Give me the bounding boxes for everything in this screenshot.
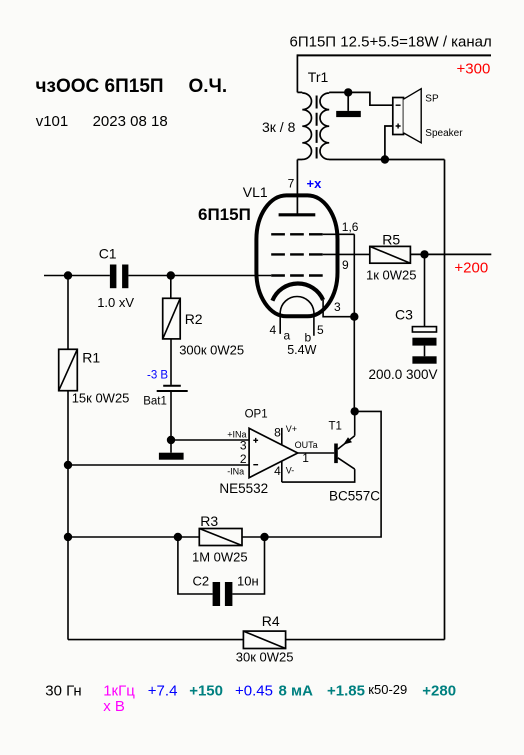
wire inverting input row <box>68 464 249 466</box>
svg-text:R3: R3 <box>200 513 218 529</box>
svg-text:О.Ч.: О.Ч. <box>189 76 228 97</box>
svg-text:1M 0W25: 1M 0W25 <box>192 549 248 564</box>
resistor R5 <box>366 232 417 283</box>
ground at op-amp noninverting input <box>170 440 172 453</box>
svg-text:-INa: -INa <box>227 466 244 476</box>
wire cathode pin 3 to rail <box>323 300 354 317</box>
svg-text:R4: R4 <box>262 613 280 629</box>
svg-text:Speaker: Speaker <box>425 128 463 139</box>
svg-text:+7.4: +7.4 <box>148 682 178 699</box>
svg-text:C1: C1 <box>99 245 117 261</box>
svg-text:30 Гн: 30 Гн <box>45 682 81 699</box>
svg-text:4: 4 <box>270 323 277 337</box>
+300 rail wire <box>297 54 491 56</box>
wire C3 to ground <box>424 346 426 357</box>
svg-text:OP1: OP1 <box>245 409 268 421</box>
bottom rail wire left segment <box>68 639 243 641</box>
svg-text:SP: SP <box>425 94 439 105</box>
capacitor C1 <box>97 245 134 310</box>
wire +300 rail to transformer primary <box>296 54 298 92</box>
svg-text:-3 В: -3 В <box>147 369 168 381</box>
svg-text:3: 3 <box>240 438 247 452</box>
svg-text:BC557C: BC557C <box>329 489 380 504</box>
node left rail inverting junction <box>64 461 72 469</box>
status line measurement labels <box>45 682 456 715</box>
wire emitter up to node <box>354 411 356 435</box>
svg-text:7: 7 <box>288 177 295 191</box>
svg-text:Bat1: Bat1 <box>143 395 167 407</box>
node speaker return junction <box>381 155 389 163</box>
svg-text:+280: +280 <box>422 682 456 699</box>
tube VL1 cathode arc <box>272 284 323 301</box>
svg-text:+150: +150 <box>189 682 223 699</box>
ground under C3 <box>412 356 436 363</box>
input wire to grid3 row <box>44 275 271 277</box>
svg-text:+0.45: +0.45 <box>235 682 273 699</box>
resistor R4 <box>236 613 294 665</box>
wire junction down to C3 <box>424 254 426 326</box>
speaker SP <box>393 89 463 143</box>
node R5 C3 junction <box>420 250 428 258</box>
wire screen rail down from grid1 <box>353 234 355 316</box>
svg-text:200.0 300V: 200.0 300V <box>369 367 438 382</box>
wire grid1 row to right rail <box>323 233 355 235</box>
node cathode junction <box>350 313 358 321</box>
node C1 R2 junction <box>167 271 175 279</box>
svg-text:+300: +300 <box>457 61 491 78</box>
svg-text:R1: R1 <box>82 350 100 366</box>
wire to op-amp noninverting input <box>171 439 249 441</box>
svg-text:300к 0W25: 300к 0W25 <box>179 343 244 358</box>
wire R2 to battery <box>170 339 172 385</box>
svg-text:T1: T1 <box>329 420 342 432</box>
node emitter feedback junction <box>351 407 359 415</box>
svg-text:1,6: 1,6 <box>342 220 359 234</box>
svg-text:8 мА: 8 мА <box>279 682 314 699</box>
svg-text:6П15П 12.5+5.5=18W / канал: 6П15П 12.5+5.5=18W / канал <box>290 34 492 51</box>
wire R3 right to node <box>242 536 265 538</box>
ground at transformer tap <box>347 92 349 111</box>
resistor R2 <box>163 276 244 358</box>
svg-text:C2: C2 <box>193 574 210 589</box>
svg-text:к50-29: к50-29 <box>368 682 407 697</box>
capacitor C2 branch <box>178 537 265 594</box>
svg-text:3: 3 <box>334 300 341 314</box>
node battery ground op-amp junction <box>167 436 175 444</box>
op-amp OP1 <box>219 409 317 497</box>
svg-text:1.0 xV: 1.0 xV <box>97 295 134 310</box>
transformer Tr1 secondary winding <box>320 92 348 159</box>
svg-text:15к 0W25: 15к 0W25 <box>72 391 130 406</box>
wire transformer primary to tube anode pin 7 <box>296 160 298 215</box>
node secondary top tap <box>344 88 352 96</box>
svg-text:1кГц: 1кГц <box>103 682 135 699</box>
svg-text:2023 08 18: 2023 08 18 <box>93 113 168 130</box>
tube VL1 heater arc with pins a b <box>280 296 314 335</box>
svg-text:5.4W: 5.4W <box>287 343 316 357</box>
tube VL1 envelope <box>256 195 337 316</box>
svg-text:NE5532: NE5532 <box>219 481 268 496</box>
capacitor C2 <box>193 574 259 607</box>
wire op-amp output to T1 base <box>298 452 335 454</box>
resistor R3 <box>192 513 248 564</box>
wire speaker plus down to secondary bottom <box>385 126 393 160</box>
svg-text:1к 0W25: 1к 0W25 <box>366 268 417 283</box>
svg-text:VL1: VL1 <box>243 184 268 200</box>
wire feedback from emitter node to R3 row <box>265 411 382 537</box>
left rail wire R1 down to bottom <box>67 391 69 640</box>
svg-text:30к 0W25: 30к 0W25 <box>236 650 294 665</box>
svg-text:+1.85: +1.85 <box>327 682 365 699</box>
svg-text:4: 4 <box>274 464 281 478</box>
battery Bat1 <box>143 369 188 407</box>
tube VL1 grid rows <box>271 233 323 235</box>
svg-text:V+: V+ <box>286 424 297 434</box>
node left rail R3 junction <box>64 533 72 541</box>
wire grid2 row to R5 <box>323 253 370 255</box>
svg-text:v101: v101 <box>36 113 69 130</box>
wire battery to ground node <box>170 391 172 440</box>
transformer Tr1 core <box>316 96 318 159</box>
svg-text:+x: +x <box>307 176 323 191</box>
node R3 left C2 junction <box>174 533 182 541</box>
svg-text:чзООС 6П15П: чзООС 6П15П <box>36 76 164 97</box>
transformer Tr1 primary winding <box>297 92 311 159</box>
resistor R1 <box>59 276 130 406</box>
svg-text:8: 8 <box>274 426 281 440</box>
svg-text:R5: R5 <box>382 232 400 248</box>
transistor T1 <box>329 420 381 503</box>
svg-text:V-: V- <box>286 465 295 475</box>
svg-text:a: a <box>284 329 291 343</box>
wire R5 to +200 stub <box>410 253 491 255</box>
svg-text:+200: +200 <box>454 260 488 277</box>
svg-text:Tr1: Tr1 <box>308 69 329 85</box>
wire R3 row left segment <box>68 536 199 538</box>
svg-text:10н: 10н <box>237 574 259 589</box>
bottom rail wire right segment <box>286 639 445 641</box>
tube VL1 anode plate <box>279 213 316 216</box>
wire cathode rail down to emitter node <box>353 317 355 412</box>
wire op-amp V- to transistor collector <box>282 469 355 482</box>
svg-text:R2: R2 <box>185 311 203 327</box>
svg-text:3к / 8: 3к / 8 <box>262 119 296 135</box>
svg-text:2: 2 <box>240 452 247 466</box>
wire secondary top to speaker minus <box>348 92 393 105</box>
capacitor C3 <box>369 307 438 382</box>
svg-text:OUTa: OUTa <box>295 440 318 450</box>
svg-text:C3: C3 <box>395 307 413 323</box>
node input R1 junction <box>64 271 72 279</box>
node R3 right C2 junction <box>260 533 268 541</box>
svg-text:х В: х В <box>103 698 125 715</box>
wire secondary bottom to right rail <box>348 159 445 161</box>
svg-text:6П15П: 6П15П <box>198 205 251 224</box>
svg-text:9: 9 <box>342 258 349 272</box>
right rail wire down to bottom <box>444 160 446 640</box>
svg-text:5: 5 <box>317 323 324 337</box>
